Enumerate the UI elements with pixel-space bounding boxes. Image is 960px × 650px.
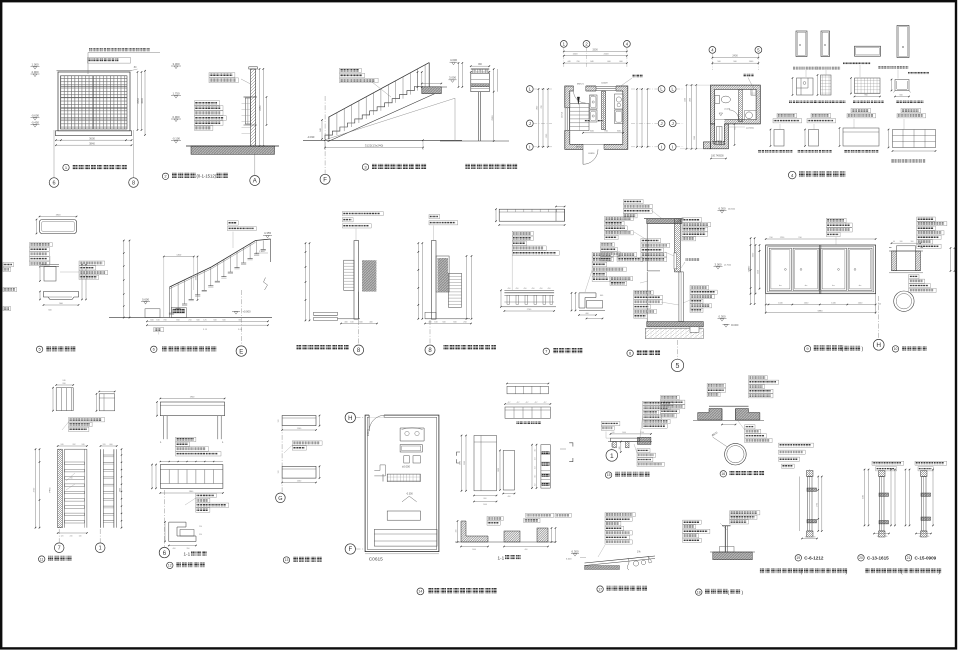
svg-text:120: 120: [61, 536, 64, 538]
svg-text:+0.000: +0.000: [243, 309, 252, 313]
svg-text:11: 11: [40, 557, 44, 561]
svg-text:-0.300: -0.300: [406, 493, 413, 496]
svg-text:2: 2: [164, 174, 167, 179]
svg-text:100: 100: [877, 536, 880, 538]
svg-text:1: 1: [563, 41, 566, 46]
svg-text:2050: 2050: [260, 105, 262, 111]
svg-text:2350: 2350: [758, 270, 760, 274]
svg-text:C0826: C0826: [588, 153, 595, 155]
svg-text:1-1: 1-1: [498, 556, 505, 561]
svg-text:900: 900: [59, 303, 63, 305]
svg-text:440: 440: [567, 61, 571, 63]
svg-text:H: H: [876, 342, 881, 349]
svg-text:2360: 2360: [460, 461, 462, 465]
svg-text:450: 450: [508, 288, 511, 290]
svg-text:1360: 1360: [546, 133, 548, 138]
svg-text:200: 200: [62, 383, 65, 385]
svg-text:←: ←: [831, 282, 836, 287]
svg-text:750: 750: [735, 126, 737, 130]
svg-text:6.300: 6.300: [572, 549, 579, 553]
svg-text:-0.030: -0.030: [307, 135, 315, 139]
svg-text:2360: 2360: [464, 461, 466, 465]
svg-text:140: 140: [885, 536, 888, 538]
svg-text:1400: 1400: [176, 254, 182, 256]
svg-text:450: 450: [524, 288, 527, 290]
svg-text:-0.600: -0.600: [31, 113, 39, 117]
svg-text:10: 10: [894, 347, 898, 351]
svg-text:240: 240: [70, 536, 73, 538]
svg-text:600: 600: [359, 322, 362, 324]
svg-text:15: 15: [607, 473, 611, 477]
svg-text:120: 120: [278, 420, 280, 423]
svg-text:4.000: 4.000: [450, 58, 457, 62]
svg-text:600: 600: [150, 319, 153, 321]
svg-text:960: 960: [478, 64, 483, 66]
svg-text:1360: 1360: [694, 136, 696, 140]
svg-text:1500: 1500: [863, 495, 865, 499]
svg-text:(: (: [842, 346, 844, 352]
svg-text:J: J: [529, 121, 531, 126]
svg-text:417: 417: [535, 449, 537, 452]
svg-text:1440: 1440: [858, 302, 863, 304]
svg-text:E: E: [239, 349, 243, 355]
svg-text:600: 600: [48, 310, 52, 312]
svg-text:500: 500: [196, 319, 199, 321]
svg-text:L: L: [222, 441, 224, 444]
svg-text:3800: 3800: [119, 488, 121, 492]
svg-text:I: I: [529, 144, 530, 149]
svg-text:F: F: [348, 547, 352, 553]
svg-text:-0.020: -0.020: [724, 109, 731, 111]
svg-text:120: 120: [278, 471, 280, 474]
svg-text:H: H: [348, 416, 352, 422]
svg-text:417: 417: [535, 457, 537, 460]
svg-text:←: ←: [778, 282, 783, 287]
svg-text:8: 8: [357, 348, 361, 354]
svg-text:60: 60: [893, 241, 895, 243]
svg-text:4.355: 4.355: [264, 231, 271, 235]
svg-text:C-13-1615: C-13-1615: [867, 556, 889, 561]
svg-text:6.300: 6.300: [719, 206, 726, 210]
svg-text:J: J: [672, 121, 674, 126]
svg-text:J: J: [661, 121, 663, 126]
svg-text:3600: 3600: [89, 136, 95, 140]
svg-text:250: 250: [188, 319, 191, 321]
svg-text:180: 180: [900, 241, 903, 243]
svg-text:M0921: M0921: [368, 429, 370, 436]
svg-text:1440: 1440: [778, 302, 783, 304]
svg-text:1760: 1760: [816, 503, 818, 507]
svg-text:2100: 2100: [604, 54, 610, 56]
svg-text:7: 7: [545, 349, 548, 354]
svg-text:5: 5: [38, 347, 41, 352]
svg-text:3.300: 3.300: [173, 62, 180, 66]
svg-text:I: I: [672, 144, 673, 149]
svg-text:240: 240: [473, 70, 476, 72]
svg-text:800: 800: [484, 498, 487, 500]
svg-text:(: (: [728, 590, 730, 596]
svg-text:417: 417: [535, 402, 538, 404]
svg-text:100: 100: [350, 322, 353, 324]
svg-text:6.000: 6.000: [566, 559, 572, 561]
svg-text:6: 6: [52, 181, 55, 187]
svg-text:400: 400: [344, 322, 347, 324]
svg-text:417: 417: [535, 483, 537, 486]
svg-text:120: 120: [878, 304, 882, 306]
svg-text:3.000: 3.000: [715, 262, 722, 266]
svg-text:650: 650: [176, 319, 179, 321]
svg-text:700: 700: [163, 319, 166, 321]
svg-text:4700: 4700: [33, 487, 35, 492]
svg-text:(6.000): (6.000): [728, 209, 735, 211]
svg-text:1.750: 1.750: [173, 91, 180, 95]
svg-text:3300: 3300: [592, 48, 598, 51]
svg-text:1000: 1000: [472, 549, 476, 551]
svg-text:M0721: M0721: [576, 147, 583, 149]
svg-text:14: 14: [418, 590, 422, 594]
svg-text:L: L: [660, 87, 663, 92]
svg-text:120: 120: [103, 444, 106, 446]
svg-text:C-15-0909: C-15-0909: [915, 556, 937, 561]
svg-text:5880: 5880: [818, 310, 824, 312]
svg-text:140: 140: [79, 536, 82, 538]
svg-text:202: 202: [73, 444, 76, 446]
svg-text:1500: 1500: [590, 95, 594, 97]
svg-text:100: 100: [919, 536, 922, 538]
svg-text:350: 350: [187, 548, 190, 550]
svg-text:400: 400: [585, 313, 588, 315]
svg-text:1560: 1560: [297, 428, 302, 430]
svg-text:1.800: 1.800: [259, 251, 265, 253]
svg-text:13: 13: [285, 558, 289, 562]
svg-text:100.740500: 100.740500: [711, 155, 724, 158]
svg-text:1%: 1%: [637, 551, 641, 554]
svg-text:L: L: [672, 87, 675, 92]
svg-text:960: 960: [864, 94, 868, 96]
svg-text:140: 140: [927, 536, 930, 538]
svg-text:250: 250: [463, 322, 466, 324]
svg-text:): ): [846, 570, 848, 575]
svg-text:(2.700): (2.700): [724, 265, 731, 267]
svg-text:1-1: 1-1: [184, 552, 191, 557]
svg-text:2700: 2700: [527, 309, 532, 311]
svg-text:240: 240: [82, 444, 85, 446]
svg-text:6: 6: [629, 351, 632, 356]
svg-text:0.300: 0.300: [719, 314, 726, 318]
svg-text:660: 660: [619, 61, 623, 63]
svg-text:2950: 2950: [137, 98, 140, 104]
svg-text:400: 400: [508, 496, 511, 498]
svg-text:500: 500: [619, 447, 621, 450]
svg-text:1860: 1860: [689, 98, 691, 102]
svg-text:±0.000: ±0.000: [402, 464, 410, 468]
svg-text:350: 350: [199, 534, 202, 536]
svg-text:1250: 1250: [780, 237, 785, 239]
svg-text:3122(13x240): 3122(13x240): [365, 143, 384, 147]
svg-text:18: 18: [697, 590, 701, 594]
svg-text:700: 700: [576, 61, 580, 63]
svg-text:1200: 1200: [573, 54, 579, 56]
svg-text:4: 4: [711, 47, 714, 52]
svg-text:-0.450: -0.450: [31, 120, 39, 124]
svg-text:C0615: C0615: [369, 557, 383, 563]
svg-text:100: 100: [434, 322, 437, 324]
svg-text:1000: 1000: [622, 432, 626, 434]
svg-text:(: (: [901, 570, 903, 575]
svg-text:700: 700: [541, 104, 543, 108]
svg-text:417: 417: [517, 402, 520, 404]
svg-text:450: 450: [455, 530, 457, 533]
svg-text:250: 250: [199, 526, 202, 528]
svg-text:1560: 1560: [684, 98, 686, 102]
svg-text:600: 600: [110, 444, 113, 446]
svg-text:0.600: 0.600: [142, 297, 149, 301]
svg-text:500: 500: [442, 322, 445, 324]
svg-text:150: 150: [798, 237, 802, 239]
svg-text:C0609: C0609: [601, 83, 608, 85]
svg-text:←: ←: [804, 282, 809, 287]
svg-text:1800: 1800: [498, 468, 500, 472]
svg-text:240: 240: [62, 380, 65, 382]
svg-text:600: 600: [600, 295, 603, 297]
svg-text:3: 3: [364, 164, 367, 169]
svg-text:100: 100: [156, 319, 159, 321]
svg-text:12: 12: [168, 564, 172, 568]
svg-text:240: 240: [485, 70, 488, 72]
svg-text:21: 21: [907, 556, 911, 560]
svg-text:-0.100: -0.100: [172, 136, 180, 140]
svg-text:140: 140: [813, 536, 816, 538]
svg-text:1: 1: [610, 453, 614, 460]
svg-text:1: 1: [99, 546, 102, 552]
svg-text:Ø500: Ø500: [711, 430, 719, 437]
svg-text:125: 125: [203, 319, 206, 321]
svg-text:M0721: M0721: [577, 83, 584, 85]
svg-text:600: 600: [453, 322, 456, 324]
svg-text:): ): [862, 346, 864, 352]
svg-text:500: 500: [222, 319, 225, 321]
svg-text:940: 940: [320, 127, 322, 131]
svg-text:1000: 1000: [483, 504, 487, 506]
svg-text:1.000: 1.000: [32, 62, 39, 66]
svg-text:600: 600: [607, 61, 611, 63]
svg-text:L: L: [160, 441, 162, 444]
svg-text:500: 500: [717, 61, 721, 63]
svg-text:1900: 1900: [56, 214, 62, 216]
svg-text:1860: 1860: [189, 491, 194, 493]
svg-text:): ): [742, 590, 744, 596]
svg-text:417: 417: [508, 402, 511, 404]
svg-text:1000: 1000: [749, 61, 754, 63]
svg-text:(-0.500): (-0.500): [746, 128, 754, 130]
svg-text:F: F: [323, 178, 327, 184]
svg-text:500: 500: [213, 319, 216, 321]
svg-text:(0-1-1512): (0-1-1512): [197, 174, 217, 179]
svg-text:17: 17: [598, 587, 602, 591]
svg-text:2.900: 2.900: [32, 70, 39, 74]
svg-text:1900: 1900: [190, 397, 195, 399]
svg-text:8: 8: [428, 348, 432, 354]
svg-text:400: 400: [525, 549, 528, 551]
svg-text:6: 6: [153, 347, 156, 352]
svg-text:2400: 2400: [732, 55, 738, 58]
svg-text:0.960: 0.960: [173, 115, 180, 119]
svg-text:1560: 1560: [297, 481, 302, 483]
svg-text:3840: 3840: [89, 141, 95, 145]
svg-text:1840: 1840: [536, 105, 538, 110]
svg-text:240: 240: [61, 444, 64, 446]
svg-text:3.00: 3.00: [238, 329, 243, 331]
svg-text:450: 450: [532, 288, 535, 290]
svg-text:4: 4: [791, 173, 794, 178]
svg-text:60: 60: [71, 478, 73, 480]
svg-text:450: 450: [548, 288, 551, 290]
svg-text:2050: 2050: [753, 252, 755, 257]
svg-text:2500: 2500: [492, 115, 494, 121]
svg-text:2: 2: [585, 41, 588, 46]
svg-text:8: 8: [132, 181, 135, 187]
svg-text:C0712: C0712: [561, 111, 563, 118]
svg-text:G: G: [278, 496, 282, 502]
svg-text:417: 417: [535, 475, 537, 478]
svg-text:3.15: 3.15: [203, 329, 208, 331]
svg-text:450: 450: [516, 288, 519, 290]
svg-text:900: 900: [733, 61, 737, 63]
svg-text:417: 417: [544, 402, 547, 404]
svg-text:450: 450: [540, 288, 543, 290]
svg-text:220: 220: [479, 70, 482, 72]
svg-text:1440: 1440: [804, 302, 809, 304]
svg-text:5: 5: [757, 47, 760, 52]
svg-text:3.000: 3.000: [449, 76, 456, 80]
svg-text:PP60: PP60: [50, 487, 52, 493]
svg-text:560: 560: [899, 94, 903, 96]
svg-text:80: 80: [134, 67, 137, 69]
svg-text:3000: 3000: [141, 98, 144, 104]
svg-text:400: 400: [173, 548, 176, 550]
svg-text:±0.000: ±0.000: [731, 324, 739, 327]
svg-text:840: 840: [590, 61, 594, 63]
svg-text:A: A: [253, 179, 257, 185]
svg-text:1440: 1440: [831, 302, 836, 304]
svg-text:16: 16: [721, 472, 725, 476]
svg-text:←: ←: [858, 282, 863, 287]
svg-text:7: 7: [58, 546, 61, 552]
svg-text:L: L: [529, 87, 532, 92]
svg-text:240: 240: [612, 432, 615, 434]
svg-text:417: 417: [535, 466, 537, 469]
svg-text:6: 6: [163, 551, 167, 557]
svg-text:417: 417: [526, 402, 529, 404]
svg-text:5: 5: [676, 363, 680, 370]
svg-text:4: 4: [626, 41, 629, 46]
svg-text:300: 300: [911, 241, 914, 243]
svg-text:19: 19: [796, 556, 800, 560]
svg-text:C-6-1212: C-6-1212: [804, 556, 824, 561]
svg-text:150: 150: [769, 237, 773, 239]
svg-text:I: I: [661, 144, 662, 149]
svg-text:1: 1: [65, 165, 68, 170]
svg-text:100: 100: [805, 536, 808, 538]
svg-text:9: 9: [806, 346, 809, 351]
svg-text:20: 20: [859, 556, 863, 560]
svg-text:400: 400: [369, 322, 372, 324]
